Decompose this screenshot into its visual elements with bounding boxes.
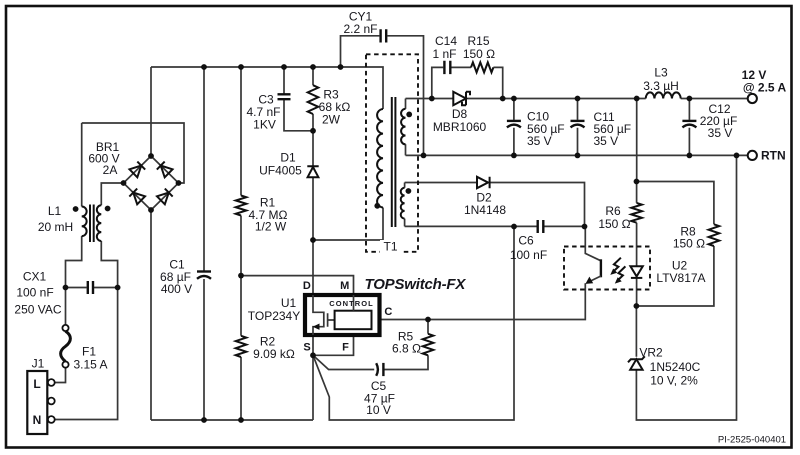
svg-text:D1: D1 (280, 150, 296, 164)
wire: VR2 branch to RTN (636, 155, 736, 420)
resistor R2 (236, 336, 247, 357)
wire: primary bottom rail (151, 419, 313, 421)
capacitor C5 (376, 363, 378, 376)
svg-text:CX1: CX1 (23, 269, 47, 283)
wire: J1 N pin to CX1 (55, 288, 118, 420)
capacitor C6 (538, 220, 544, 233)
svg-text:N: N (33, 413, 42, 427)
wire: S node diagonal to bias return and C6 (313, 227, 514, 421)
svg-text:1KV: 1KV (253, 117, 276, 131)
wire: BR1 left corner to L1 right winding (101, 183, 123, 205)
svg-text:D8: D8 (452, 107, 468, 121)
capacitor CX1 (88, 281, 93, 294)
svg-text:C: C (384, 306, 392, 318)
svg-text:S: S (303, 342, 310, 354)
svg-text:CONTROL: CONTROL (329, 299, 373, 308)
svg-text:D: D (303, 280, 311, 292)
connector J1 (27, 371, 47, 434)
T1 core (392, 97, 396, 227)
svg-text:C6: C6 (518, 233, 534, 247)
svg-text:R6: R6 (605, 204, 621, 218)
svg-text:150 Ω: 150 Ω (673, 236, 705, 250)
wire: R5 branch (384, 320, 428, 370)
svg-text:10 V, 2%: 10 V, 2% (650, 373, 698, 387)
capacitor C12 (682, 120, 696, 122)
wire: C10 branch (513, 99, 515, 156)
wire: C14 R15 snubber loop (432, 67, 503, 98)
svg-text:9.09 kΩ: 9.09 kΩ (253, 347, 295, 361)
U1 control block (335, 311, 372, 330)
wire: CX1 link (66, 288, 118, 325)
svg-text:6.8 Ω: 6.8 Ω (392, 341, 421, 355)
svg-text:F1: F1 (82, 344, 96, 358)
svg-text:2.2 nF: 2.2 nF (343, 22, 377, 36)
svg-text:150 Ω: 150 Ω (463, 47, 495, 61)
L1 phase dots (73, 206, 79, 212)
svg-text:L1: L1 (48, 204, 62, 218)
T1 primary winding (377, 109, 383, 207)
capacitor C1 (197, 270, 211, 272)
svg-text:LTV817A: LTV817A (656, 271, 705, 285)
capacitor CY1 (381, 29, 387, 42)
svg-text:C14: C14 (435, 34, 457, 48)
diode D1 (307, 166, 318, 177)
output terminal 12V (748, 94, 757, 103)
U2 phototransistor (585, 227, 601, 261)
wire: C3 branch (284, 67, 313, 131)
wire: C12 branch (688, 99, 690, 156)
svg-text:2A: 2A (103, 163, 118, 177)
svg-text:1 nF: 1 nF (432, 47, 456, 61)
svg-text:35 V: 35 V (708, 126, 733, 140)
wire: bias return through C6 (405, 225, 585, 227)
wire: J1 L pin to fuse (55, 368, 66, 383)
inductor L3 (646, 92, 681, 98)
U2 light arrows (612, 258, 621, 273)
svg-text:1N4148: 1N4148 (464, 203, 506, 217)
fuse F1 (62, 325, 68, 331)
svg-text:100 nF: 100 nF (510, 248, 547, 262)
wire: CY1 left lead (341, 36, 380, 67)
wire: drain node to primary winding bottom (313, 208, 383, 241)
wire: C pin line (372, 319, 429, 321)
wire: S node diagonal to C5 (313, 355, 374, 369)
wire: drain node to U1 D pin (312, 240, 314, 295)
svg-text:J1: J1 (32, 356, 45, 370)
bridge rectifier BR1 (121, 153, 182, 213)
wire: L1 left winding bottom to CX1 (66, 236, 82, 287)
wire: C1 branch (203, 67, 205, 420)
wire: BR1 plus output to rail (150, 67, 152, 156)
svg-text:F: F (342, 342, 349, 354)
wire: M pin line to R1/R2 node (241, 276, 354, 311)
resistor R8 (709, 224, 720, 246)
svg-text:3.3 µH: 3.3 µH (643, 79, 679, 93)
optocoupler U2 dashed box (564, 247, 650, 290)
svg-text:3.15 A: 3.15 A (73, 357, 107, 371)
wire: secondary return rail (406, 154, 748, 156)
wire: S pin network (S node, F tie, down to rail) (313, 329, 354, 420)
svg-text:PI-2525-040401: PI-2525-040401 (718, 434, 786, 445)
svg-text:2W: 2W (322, 112, 341, 126)
svg-text:VR2: VR2 (639, 345, 663, 359)
T1 phase dots (374, 203, 380, 209)
U1 internal MOSFET (313, 295, 324, 335)
wire: BR1 minus to bottom rail (150, 210, 152, 420)
resistor R5 (423, 334, 434, 356)
wire: feedback tap down to R6/R8 node (636, 99, 638, 182)
svg-text:R15: R15 (467, 34, 489, 48)
svg-text:UF4005: UF4005 (259, 163, 302, 177)
TOPSwitch U1 block (305, 295, 380, 335)
capacitor C14 (444, 61, 450, 74)
T1 label (380, 240, 401, 253)
wire: D1 to drain node (312, 131, 314, 240)
transformer T1 dashed box (366, 54, 418, 252)
svg-text:M: M (340, 280, 349, 292)
resistor R6 (631, 203, 642, 223)
resistor R1 (236, 196, 247, 216)
T1 bias winding (404, 183, 406, 227)
svg-text:L3: L3 (654, 65, 668, 79)
svg-text:100 nF: 100 nF (16, 285, 53, 299)
U1 MOSFET gate (328, 313, 335, 326)
diode D2 (477, 177, 490, 188)
wire: CY1 right lead to secondary return (387, 36, 423, 156)
capacitor C11 (571, 120, 585, 122)
wire: R8 branch (636, 182, 714, 307)
wire: secondary output rail with D8 (406, 98, 748, 100)
svg-text:10 V: 10 V (366, 403, 391, 417)
svg-text:250 VAC: 250 VAC (14, 302, 61, 316)
inductor L1 common-mode choke (81, 123, 83, 207)
svg-text:MBR1060: MBR1060 (433, 120, 487, 134)
output terminal RTN (748, 151, 757, 160)
svg-text:@ 2.5 A: @ 2.5 A (743, 80, 787, 94)
wire: R6 to LED column (636, 182, 638, 307)
wire: C node to optocoupler emitter (428, 283, 585, 319)
U1 M pin internal (353, 295, 355, 311)
svg-text:1N5240C: 1N5240C (650, 360, 701, 374)
resistor R15 (471, 62, 493, 72)
svg-text:T1: T1 (383, 240, 397, 254)
wire: C11 branch (577, 99, 579, 156)
svg-text:1/2 W: 1/2 W (255, 219, 287, 233)
svg-text:TOP234Y: TOP234Y (248, 309, 300, 323)
svg-text:35 V: 35 V (594, 134, 619, 148)
U2 LED (630, 266, 642, 276)
svg-text:35 V: 35 V (527, 134, 552, 148)
svg-text:20 mH: 20 mH (38, 220, 73, 234)
svg-text:150 Ω: 150 Ω (598, 217, 630, 231)
wire: R3 branch (312, 67, 314, 131)
capacitor C3 (278, 94, 291, 99)
svg-text:400 V: 400 V (161, 282, 192, 296)
wire: bias winding to D2 and opto collector (405, 183, 585, 227)
svg-text:U1: U1 (281, 296, 297, 310)
wire: AC top link L1 to BR1 right corner (82, 123, 184, 183)
wire: R1 R2 column (240, 67, 242, 420)
wire: primary top rail (151, 67, 383, 109)
wire: L1 right winding bottom to CX1 (101, 241, 117, 288)
T1 secondary winding (405, 99, 407, 156)
diode D8 (453, 92, 466, 105)
L1 core (90, 205, 94, 243)
svg-text:L: L (33, 377, 40, 391)
svg-text:TOPSwitch-FX: TOPSwitch-FX (365, 276, 467, 293)
svg-text:RTN: RTN (761, 149, 786, 163)
resistor R3 (308, 85, 319, 114)
zener diode VR2 (630, 359, 642, 370)
capacitor C10 (507, 120, 521, 122)
